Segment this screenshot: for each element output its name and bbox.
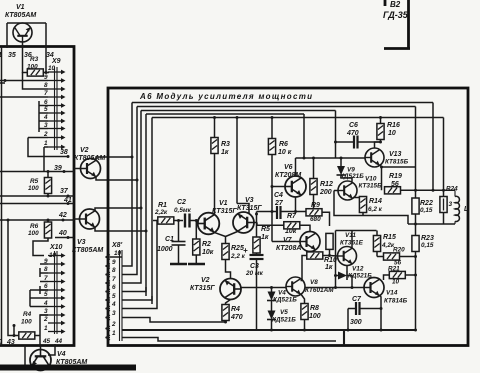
svg-text:0,5мк: 0,5мк bbox=[174, 207, 192, 214]
svg-text:КД521Б: КД521Б bbox=[273, 297, 297, 304]
wire V13 emitter to R19 bbox=[380, 165, 416, 191]
wire V13 collector bbox=[375, 142, 381, 148]
svg-text:ГД-35: ГД-35 bbox=[383, 10, 409, 20]
wire node 41 row bbox=[0, 203, 74, 205]
node 41 bbox=[63, 197, 72, 205]
svg-text:R5: R5 bbox=[261, 226, 270, 233]
transistor V4 KT805AM bbox=[30, 350, 87, 371]
svg-text:R5: R5 bbox=[30, 178, 39, 185]
capacitor C2 0,5mk bbox=[174, 199, 192, 228]
svg-text:680: 680 bbox=[310, 216, 321, 223]
svg-text:V1: V1 bbox=[219, 200, 228, 207]
svg-text:100: 100 bbox=[28, 230, 39, 237]
svg-text:R14: R14 bbox=[369, 198, 382, 205]
transistor V11 KT361E bbox=[338, 232, 364, 266]
wire trimmer bottom bbox=[329, 249, 331, 256]
wire V3 base to R5 bbox=[254, 223, 257, 238]
svg-text:6,2 к: 6,2 к bbox=[368, 206, 383, 213]
svg-text:R25: R25 bbox=[231, 245, 244, 252]
ground bar R2 bbox=[188, 263, 205, 266]
svg-text:А6 Модуль усилителя мощност: А6 Модуль усилителя мощности bbox=[139, 92, 312, 101]
svg-text:1: 1 bbox=[112, 330, 116, 337]
svg-text:300: 300 bbox=[350, 319, 362, 326]
node 39 bbox=[54, 165, 66, 173]
resistor R1 2,2k bbox=[154, 202, 174, 224]
wire V13 base bbox=[364, 157, 366, 160]
svg-text:42: 42 bbox=[58, 212, 67, 219]
resistor R5 100 bbox=[28, 178, 52, 194]
svg-text:0: 0 bbox=[0, 339, 2, 346]
svg-text:В2: В2 bbox=[390, 0, 401, 9]
resistor R15 4,2k bbox=[373, 231, 396, 257]
wire bus L3 bbox=[122, 111, 336, 284]
wire V11 base bbox=[330, 255, 338, 258]
diode V5 KD521B bbox=[267, 309, 296, 324]
svg-text:КТ815Б: КТ815Б bbox=[385, 159, 409, 166]
wire V2 base to diode chain bbox=[241, 287, 286, 289]
wire X9 pins 4,3 bracket bbox=[39, 117, 48, 132]
resistor R21 10 bbox=[384, 266, 418, 286]
svg-text:V14: V14 bbox=[386, 290, 398, 297]
resistor R24 3 bbox=[440, 186, 458, 225]
svg-text:R4: R4 bbox=[23, 311, 32, 318]
svg-text:R8: R8 bbox=[310, 305, 319, 312]
wire R1 to C2 bbox=[174, 220, 183, 222]
resistor R16 10 bbox=[377, 122, 400, 144]
svg-text:V13: V13 bbox=[389, 151, 402, 158]
wire R6 top bbox=[47, 220, 49, 222]
svg-text:КТ315Г: КТ315Г bbox=[190, 285, 215, 292]
svg-text:КТ208А: КТ208А bbox=[276, 245, 301, 252]
svg-text:6: 6 bbox=[112, 284, 116, 291]
wire X9 pin9 from left edge bbox=[0, 80, 48, 82]
svg-text:С4: С4 bbox=[274, 192, 283, 199]
wire V11 collector bbox=[346, 266, 348, 272]
svg-text:7: 7 bbox=[112, 276, 116, 283]
wire V3 emitter bbox=[95, 227, 146, 231]
transistor V6 KT208M bbox=[275, 164, 306, 197]
wire X8 pin3 to gnd rail bbox=[122, 318, 226, 323]
svg-text:2: 2 bbox=[43, 316, 48, 323]
transistor V1 KT805AM bbox=[5, 4, 36, 42]
svg-text:5: 5 bbox=[44, 106, 48, 113]
svg-text:8: 8 bbox=[44, 266, 48, 273]
svg-text:V2: V2 bbox=[80, 147, 89, 154]
svg-text:R6: R6 bbox=[279, 141, 288, 148]
diode V12 KD521B bbox=[334, 266, 372, 288]
resistor R8 100 bbox=[301, 304, 321, 332]
wire V2 emitter to R4 bbox=[226, 300, 231, 305]
svg-text:+: + bbox=[243, 246, 248, 255]
svg-text:1: 1 bbox=[44, 140, 48, 147]
wire output rail bbox=[408, 223, 455, 225]
svg-text:R15: R15 bbox=[383, 234, 396, 241]
svg-text:5: 5 bbox=[44, 291, 48, 298]
connector X10 bbox=[43, 244, 66, 334]
wire node 40 row bbox=[55, 237, 74, 239]
wire R4 right lead bbox=[35, 315, 48, 346]
svg-text:8: 8 bbox=[112, 267, 116, 274]
black bar bottom left bbox=[0, 365, 136, 371]
wire V1 top bbox=[7, 23, 46, 47]
svg-text:С7: С7 bbox=[352, 296, 362, 303]
svg-text:R6: R6 bbox=[30, 223, 39, 230]
wire V10 emitter to R14 bbox=[353, 197, 363, 199]
wire V10 base stub bbox=[334, 191, 338, 213]
wire between diodes bbox=[271, 301, 273, 312]
svg-text:10: 10 bbox=[388, 130, 396, 137]
diode V9 KD521B bbox=[337, 157, 365, 182]
svg-text:41: 41 bbox=[63, 197, 72, 204]
resistor R3 100 bbox=[27, 56, 43, 76]
connector X8 bbox=[106, 242, 123, 341]
wire top left edge stub bbox=[0, 82, 5, 84]
wire V7 collector to R10 bbox=[309, 251, 311, 252]
svg-text:3: 3 bbox=[112, 310, 116, 317]
resistor R12 200 bbox=[310, 157, 333, 209]
wire C2 to V1 base bbox=[190, 221, 199, 224]
svg-text:R7: R7 bbox=[287, 213, 297, 220]
resistor R6 100 bbox=[28, 222, 52, 238]
capacitor C6 470 bbox=[334, 122, 381, 149]
wire input to R1 bbox=[153, 220, 158, 222]
wire V6 collector down bbox=[295, 197, 297, 212]
svg-text:37: 37 bbox=[60, 188, 69, 195]
transistor V10 KT315B bbox=[338, 176, 382, 201]
capacitor C1 1000 bbox=[157, 219, 186, 263]
svg-text:R22: R22 bbox=[420, 200, 433, 207]
inductor L bbox=[455, 190, 468, 224]
wire V14 emitter down bbox=[380, 295, 382, 331]
wire R10 left to V8 bbox=[301, 256, 307, 281]
capacitor C3 20mk bbox=[243, 246, 264, 330]
svg-text:1: 1 bbox=[44, 325, 48, 332]
svg-text:R3: R3 bbox=[30, 56, 39, 63]
resistor R7 10k bbox=[284, 213, 300, 235]
connector X9 bbox=[43, 58, 66, 150]
svg-text:V12: V12 bbox=[352, 266, 364, 273]
wire V6 emitter up bbox=[295, 158, 297, 176]
transistor V1 KT315G bbox=[198, 200, 238, 234]
svg-text:6: 6 bbox=[44, 283, 48, 290]
wire X8 pin6,5 tick marks bbox=[146, 287, 152, 304]
svg-text:V5: V5 bbox=[280, 309, 288, 316]
wire V3 collector node to C4 and R9 bbox=[257, 211, 307, 213]
svg-text:100: 100 bbox=[309, 313, 321, 320]
svg-text:R16: R16 bbox=[387, 122, 400, 129]
node 42 bbox=[58, 212, 67, 222]
svg-text:100: 100 bbox=[21, 319, 32, 326]
wire X9 pin8 bbox=[23, 72, 49, 89]
resistor R22 0,15 bbox=[412, 167, 433, 226]
svg-text:V4: V4 bbox=[57, 351, 66, 358]
wire supply rail L5 bbox=[122, 118, 444, 301]
transistor V2 KT805AM bbox=[74, 147, 105, 179]
wire V6 base bbox=[272, 186, 285, 188]
resistor R6 10k bbox=[268, 116, 291, 242]
svg-text:R19: R19 bbox=[389, 173, 402, 180]
svg-text:1000: 1000 bbox=[157, 246, 173, 253]
svg-text:R12: R12 bbox=[320, 181, 333, 188]
wire node 42 row bbox=[0, 219, 74, 221]
resistor R25 2,2k bbox=[222, 244, 246, 279]
wire emitters join bbox=[215, 232, 238, 244]
ground bar C1 bbox=[170, 263, 187, 266]
svg-text:V8: V8 bbox=[310, 279, 318, 286]
svg-text:1: 1 bbox=[0, 52, 2, 59]
wire V11 emitter top bbox=[336, 231, 377, 289]
wire X8 pin1 rail bbox=[122, 338, 336, 342]
resistor R20 56 bbox=[377, 247, 417, 267]
wire X10 pins 5-1 feeds bbox=[30, 290, 48, 315]
wire V5 to ground rail bbox=[271, 320, 273, 331]
resistor R4 100 bbox=[19, 311, 35, 339]
wire node rail y158 bbox=[296, 157, 366, 159]
wire V4 leads bbox=[25, 346, 55, 368]
wire bus L1 bbox=[122, 103, 433, 267]
wire V3 collector bbox=[95, 208, 141, 211]
svg-text:27: 27 bbox=[274, 200, 284, 207]
svg-text:Х9: Х9 bbox=[51, 58, 61, 65]
wire X9 pins 6,5 bracket bbox=[39, 101, 48, 117]
wire X8 pin10 stub bbox=[110, 256, 122, 258]
svg-text:2: 2 bbox=[111, 321, 116, 328]
node 34 bbox=[45, 45, 54, 59]
capacitor C7 300 bbox=[347, 296, 383, 332]
node 44 bbox=[54, 338, 63, 347]
svg-text:КТ315Б: КТ315Б bbox=[359, 183, 383, 190]
wire V3 collector vert bbox=[256, 212, 258, 223]
resistor R19 56 bbox=[385, 173, 402, 194]
svg-text:10 к: 10 к bbox=[278, 149, 292, 156]
svg-text:V11: V11 bbox=[345, 232, 356, 239]
resistor R3 1k bbox=[211, 116, 230, 156]
node 35 bbox=[6, 45, 16, 59]
svg-text:R24: R24 bbox=[446, 186, 458, 193]
wire X9 pin1 to node 39 bbox=[44, 147, 48, 172]
svg-text:3: 3 bbox=[449, 201, 453, 208]
wire V2 emitter bbox=[96, 177, 137, 180]
node 37 bbox=[47, 188, 70, 198]
svg-text:35: 35 bbox=[8, 52, 16, 59]
svg-text:КТ805АМ: КТ805АМ bbox=[72, 247, 103, 254]
svg-text:Х10: Х10 bbox=[49, 244, 63, 251]
transistor V13 KT815B bbox=[365, 148, 409, 167]
svg-text:43: 43 bbox=[6, 339, 15, 346]
wire R3 leads bbox=[23, 47, 50, 73]
wire V3 collector bbox=[237, 118, 249, 214]
svg-text:40: 40 bbox=[58, 230, 67, 237]
resistor R9 680 bbox=[306, 202, 322, 223]
svg-text:R1: R1 bbox=[158, 202, 167, 209]
svg-text:4: 4 bbox=[111, 301, 116, 308]
node 38 bbox=[60, 149, 70, 158]
wire output node row bbox=[401, 189, 456, 191]
svg-text:8: 8 bbox=[44, 82, 48, 89]
svg-text:V4: V4 bbox=[278, 290, 286, 297]
wire bus L2 bbox=[122, 107, 416, 275]
svg-text:С2: С2 bbox=[177, 199, 186, 206]
wire node 39 row bbox=[0, 171, 74, 173]
transistor V3 KT805AM bbox=[72, 209, 103, 254]
transistor V14 KT814B bbox=[364, 278, 408, 305]
wire left vertical feed bbox=[8, 220, 19, 336]
resistor R5 1k bbox=[253, 226, 270, 253]
svg-text:200: 200 bbox=[319, 189, 332, 196]
svg-text:V1: V1 bbox=[16, 4, 25, 11]
svg-text:2,2к: 2,2к bbox=[154, 209, 168, 216]
node 40 bbox=[58, 230, 70, 239]
wire R9 right to trimmer bbox=[322, 212, 330, 226]
svg-text:20 мк: 20 мк bbox=[245, 270, 264, 277]
svg-text:9: 9 bbox=[112, 259, 116, 266]
resistor R23 0,15 bbox=[412, 224, 434, 332]
svg-text:5: 5 bbox=[112, 293, 116, 300]
wire diode chain top bbox=[271, 288, 273, 293]
wire V2 collector bbox=[96, 157, 132, 160]
svg-text:R2: R2 bbox=[202, 241, 211, 248]
wire output feed row bbox=[334, 212, 408, 224]
svg-text:V3: V3 bbox=[77, 239, 86, 246]
svg-text:1к: 1к bbox=[325, 264, 333, 271]
svg-text:КТ805АМ: КТ805АМ bbox=[5, 12, 36, 19]
trimmer resistor R11 bbox=[326, 233, 333, 249]
wire R7 left bbox=[257, 223, 284, 226]
transistor V2 KT315G bbox=[190, 277, 241, 300]
svg-text:С3: С3 bbox=[250, 263, 259, 270]
svg-text:V2: V2 bbox=[201, 277, 210, 284]
wire V8 base to V14 base bbox=[305, 287, 364, 289]
wire R10 right bbox=[323, 255, 330, 257]
svg-text:R9: R9 bbox=[311, 202, 320, 209]
diode V4 KD521B bbox=[267, 290, 297, 304]
wire X10 pin9-6 stubs bbox=[40, 264, 48, 294]
svg-text:КТ814Б: КТ814Б bbox=[384, 298, 408, 305]
wire X9 pin7 from left edge bbox=[0, 96, 48, 98]
wire X8 pin2 ground rail bbox=[122, 330, 416, 345]
resistor R4 470 bbox=[222, 305, 243, 324]
resistor R14 6,2k bbox=[359, 197, 382, 216]
svg-text:R3: R3 bbox=[221, 141, 230, 148]
wire R7 right to V7 bbox=[300, 225, 310, 231]
transistor V8 KT601AM bbox=[286, 277, 334, 296]
svg-text:10к: 10к bbox=[202, 249, 214, 256]
svg-text:0,15: 0,15 bbox=[421, 242, 434, 249]
svg-text:470: 470 bbox=[230, 314, 243, 321]
svg-text:С6: С6 bbox=[349, 122, 358, 129]
svg-text:V10: V10 bbox=[365, 176, 377, 183]
chassis box left bbox=[0, 47, 74, 346]
svg-text:10: 10 bbox=[114, 250, 122, 257]
node taps on bus bbox=[131, 156, 134, 159]
svg-text:0,15: 0,15 bbox=[420, 207, 433, 214]
svg-text:100: 100 bbox=[28, 185, 39, 192]
svg-text:10: 10 bbox=[392, 279, 400, 286]
svg-text:КТ315Г: КТ315Г bbox=[212, 208, 237, 215]
svg-text:Х8': Х8' bbox=[111, 242, 123, 249]
transistor V3 KT315G bbox=[233, 197, 262, 233]
wire V2 base bbox=[74, 168, 81, 170]
wire V7 base from R6 bbox=[272, 241, 300, 243]
svg-text:V6: V6 bbox=[284, 164, 293, 171]
wire node 37 row bbox=[0, 194, 74, 197]
node 45 bbox=[39, 338, 51, 347]
svg-text:V7: V7 bbox=[283, 237, 293, 244]
transistor V7 KT208A bbox=[276, 232, 320, 253]
svg-text:1к: 1к bbox=[261, 234, 269, 241]
svg-text:38: 38 bbox=[60, 149, 68, 156]
svg-text:44: 44 bbox=[54, 338, 63, 345]
wire R5 top bbox=[47, 172, 49, 178]
speaker B2 GD-35 bbox=[383, 0, 410, 49]
svg-text:L: L bbox=[464, 206, 468, 213]
capacitor C4 27 bbox=[274, 192, 284, 219]
svg-text:4: 4 bbox=[43, 114, 48, 121]
wire V1 collector to R3 bbox=[214, 153, 216, 214]
svg-text:R23: R23 bbox=[421, 235, 434, 242]
svg-text:45: 45 bbox=[42, 338, 51, 345]
wire X8 pin4 input feed bbox=[122, 221, 158, 309]
svg-text:1к: 1к bbox=[221, 149, 229, 156]
wire V3 base bbox=[74, 218, 80, 220]
svg-text:39: 39 bbox=[54, 165, 62, 172]
svg-text:7: 7 bbox=[44, 90, 48, 97]
svg-text:R4: R4 bbox=[231, 306, 240, 313]
wire bus L4 bbox=[122, 114, 304, 292]
wire V8 emitter to R8 bbox=[301, 294, 305, 305]
node 36 bbox=[21, 45, 32, 59]
wire R6 bottom loop to X10 bbox=[33, 238, 48, 256]
svg-text:3: 3 bbox=[44, 308, 48, 315]
wire X9 pin2 to node 38 bbox=[28, 138, 68, 157]
node 43 bbox=[0, 339, 15, 346]
module A6 frame bbox=[108, 88, 468, 346]
resistor R2 10k bbox=[193, 219, 214, 263]
resistor R10 1k bbox=[307, 252, 337, 271]
